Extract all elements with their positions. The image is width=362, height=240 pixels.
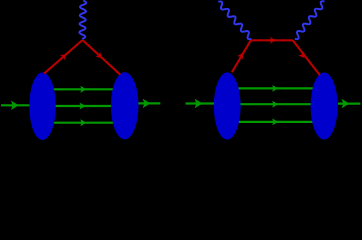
outgoing proton line (left diagram)	[138, 102, 161, 104]
bottom spectator quark line (left diagram)	[42, 122, 124, 124]
arrow on incoming proton line (right diagram)	[195, 99, 203, 108]
right proton blob (left diagram)	[111, 72, 139, 139]
arrow on struck quark line down (right diagram)	[298, 51, 307, 60]
arrow on middle spectator line (left diagram)	[80, 103, 86, 110]
quark propagator line (right diagram)	[251, 39, 293, 41]
photon wavy line (left diagram)	[79, 1, 86, 39]
arrow on struck quark line down (left diagram)	[96, 52, 105, 61]
right proton blob (right diagram)	[311, 73, 338, 140]
top spectator quark line (left diagram)	[42, 88, 124, 90]
struck quark line up (right diagram)	[232, 40, 251, 72]
arrow on struck quark line up (left diagram)	[60, 51, 69, 60]
arrow on incoming proton line (left diagram)	[11, 101, 19, 110]
arrow on bottom spectator line (left diagram)	[80, 119, 86, 126]
arrow on middle spectator line (right diagram)	[272, 101, 278, 108]
arrow on top spectator line (left diagram)	[80, 86, 86, 93]
incoming proton line (left diagram)	[1, 104, 31, 106]
struck quark line down (left diagram)	[83, 40, 121, 75]
outgoing proton line (right diagram)	[338, 102, 360, 104]
top spectator quark line (right diagram)	[226, 87, 323, 89]
left proton blob (right diagram)	[214, 72, 241, 139]
bottom spectator quark line (right diagram)	[226, 121, 323, 123]
arrow on quark propagator (right diagram)	[270, 37, 276, 44]
arrow on top spectator line (right diagram)	[272, 85, 278, 92]
arrow on outgoing proton line (right diagram)	[342, 99, 350, 108]
struck quark line down (right diagram)	[293, 40, 320, 75]
middle spectator quark line (right diagram)	[226, 103, 323, 105]
incoming proton line (right diagram)	[186, 102, 217, 104]
struck quark line up (left diagram)	[44, 40, 82, 74]
arrow on outgoing proton line (left diagram)	[143, 99, 151, 108]
outgoing photon wavy line (right diagram)	[295, 1, 325, 39]
arrow on struck quark line up (right diagram)	[237, 51, 246, 59]
middle spectator quark line (left diagram)	[42, 105, 124, 107]
left proton blob (left diagram)	[29, 72, 55, 140]
incoming photon wavy line (right diagram)	[218, 1, 251, 39]
arrow on bottom spectator line (right diagram)	[272, 119, 278, 126]
